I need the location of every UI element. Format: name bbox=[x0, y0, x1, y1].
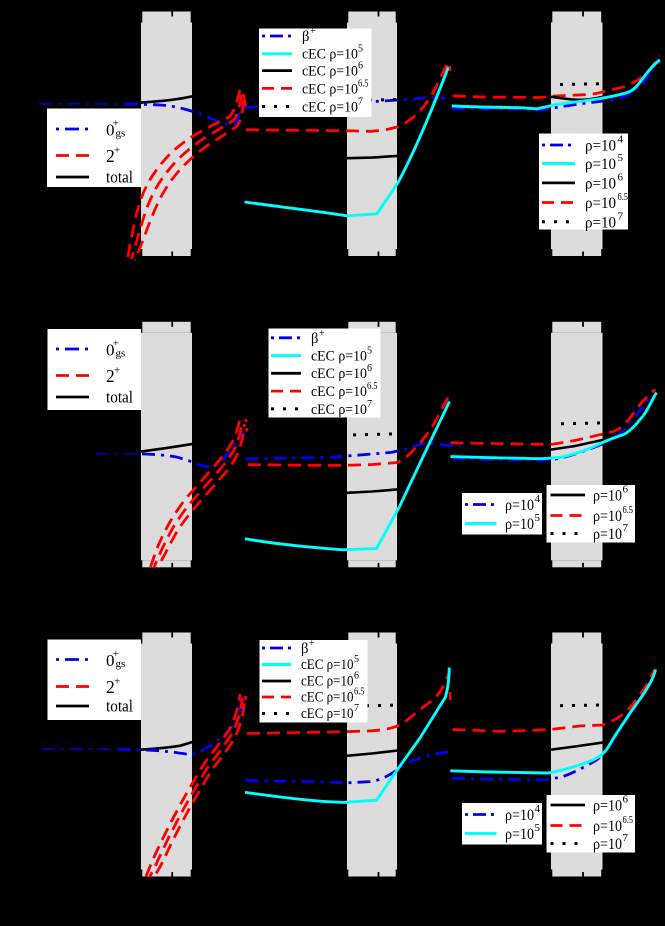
legend row3 col3b black sample bbox=[551, 804, 586, 807]
row2 col1 black total (band only) bbox=[120, 442, 205, 453]
legend row3 col3b dotted sample bbox=[551, 842, 586, 845]
svg-text:ρ=10: ρ=10 bbox=[585, 175, 616, 192]
svg-text:ρ=10: ρ=10 bbox=[505, 497, 534, 514]
svg-text:cEC ρ=10: cEC ρ=10 bbox=[301, 674, 354, 690]
svg-text:ρ=10: ρ=10 bbox=[585, 195, 616, 212]
legend row1 col2 red sample bbox=[262, 87, 292, 90]
legend row3 col1 red sample bbox=[56, 685, 89, 688]
svg-text:6: 6 bbox=[623, 794, 629, 806]
legend row1 col1 blue sample bbox=[56, 128, 89, 131]
row3 col1 blue 0+gs curve bbox=[118, 699, 242, 754]
svg-text:5: 5 bbox=[367, 345, 372, 356]
svg-text:+: + bbox=[310, 26, 316, 37]
row3 col3 blue rho 1e4 (under cyan) bbox=[452, 672, 655, 780]
legend row2 col3a blue sample bbox=[465, 503, 497, 506]
svg-text:4: 4 bbox=[535, 493, 541, 505]
legend row2 col3 box B bbox=[547, 484, 636, 544]
gray band row3 col3 bbox=[552, 633, 601, 644]
legend row1 col2 dotted sample bbox=[262, 105, 292, 108]
svg-text:ρ=10: ρ=10 bbox=[505, 807, 534, 824]
row2 col1 red 2+ bundle curve B bbox=[154, 420, 243, 568]
svg-text:4: 4 bbox=[535, 803, 541, 815]
svg-text:6: 6 bbox=[618, 172, 624, 184]
svg-text:total: total bbox=[106, 168, 133, 187]
axis ticks over bands bbox=[172, 12, 583, 877]
row3 col1 red 2+ bundle curve A bbox=[146, 694, 240, 877]
row2 col3 black cEC 1e6 (band only) bbox=[540, 423, 612, 451]
row2 col3 cyan rho 1e5 curve bbox=[451, 393, 657, 459]
svg-text:7: 7 bbox=[358, 97, 363, 108]
legend row3 col2 box bbox=[260, 638, 368, 723]
legend row1 col2 box bbox=[259, 26, 372, 117]
row2 col1 red 2+ bundle curve A bbox=[151, 417, 241, 567]
gray band row1 col3 bbox=[552, 12, 601, 23]
row3 col3 black dotted (band only) bbox=[560, 703, 608, 707]
legend row1 col3 dotted sample bbox=[542, 220, 575, 223]
row1 col1 black total curve (visible over band only) bbox=[115, 94, 210, 105]
legend row2 col1 red sample bbox=[56, 374, 89, 377]
svg-text:5: 5 bbox=[354, 654, 359, 665]
gray band row3 col1 bbox=[142, 633, 190, 644]
svg-text:cEC ρ=10: cEC ρ=10 bbox=[302, 47, 358, 63]
legend row3 col1 box bbox=[48, 640, 142, 721]
row1 col3 cyan rho 1e5 curve bbox=[452, 60, 660, 109]
legend row2 col3b dotted sample bbox=[551, 532, 586, 535]
svg-text:6.5: 6.5 bbox=[354, 687, 365, 698]
legend row3 col1 black sample bbox=[56, 705, 89, 708]
svg-text:cEC ρ=10: cEC ρ=10 bbox=[301, 690, 354, 706]
svg-text:6.5: 6.5 bbox=[358, 79, 369, 90]
svg-text:cEC ρ=10: cEC ρ=10 bbox=[302, 82, 358, 98]
svg-text:ρ=10: ρ=10 bbox=[593, 818, 622, 835]
gray band row2 col1 bbox=[142, 322, 190, 333]
legend row1 col2 black sample bbox=[262, 69, 292, 72]
svg-text:cEC ρ=10: cEC ρ=10 bbox=[301, 706, 354, 722]
svg-text:6.5: 6.5 bbox=[618, 191, 629, 203]
svg-text:6: 6 bbox=[367, 363, 372, 374]
legend row3 col3 box B bbox=[547, 794, 636, 854]
row2 col2 blue beta+ curve bbox=[246, 443, 462, 459]
legend row3 col2 red sample bbox=[262, 696, 291, 699]
svg-text:7: 7 bbox=[618, 210, 624, 222]
legend row3 col2 blue sample bbox=[262, 647, 291, 650]
row1 col1 red 2+ bundle curve B bbox=[132, 93, 242, 259]
row3 col1-2 spike red fragment bbox=[244, 696, 247, 700]
legend row2 col2 blue sample bbox=[271, 336, 301, 339]
row2 col3 blue rho 1e4 (under cyan) bbox=[452, 396, 651, 461]
svg-text:7: 7 bbox=[367, 399, 372, 410]
legend row2 col2 dotted sample bbox=[271, 407, 301, 410]
svg-text:ρ=10: ρ=10 bbox=[593, 798, 622, 815]
row2 col3 black dotted (band only) bbox=[561, 423, 610, 424]
row3 col2 red cEC 1e6.5 curve bbox=[247, 673, 449, 734]
legend row1 col1 box bbox=[47, 109, 141, 188]
svg-text:ρ=10: ρ=10 bbox=[593, 526, 622, 543]
svg-text:gs: gs bbox=[116, 348, 126, 360]
legend row1 col3 cyan sample bbox=[542, 162, 575, 165]
row1 col2 red cEC 1e6.5 curve bbox=[246, 63, 448, 132]
gray band row1 col2 bbox=[348, 12, 395, 23]
legend row3 col2 black sample bbox=[262, 680, 291, 683]
row1 col1 blue 0+gs curve bbox=[125, 99, 243, 125]
row3 col3 cyan rho 1e5 curve bbox=[450, 670, 655, 774]
legend row3 col3 box A bbox=[462, 803, 542, 845]
legend row2 col1 black sample bbox=[56, 396, 89, 399]
row1 col3 spike red fragments bbox=[449, 66, 452, 71]
legend row1 col2 cyan sample bbox=[262, 52, 292, 55]
svg-text:total: total bbox=[106, 697, 133, 716]
svg-text:β: β bbox=[311, 331, 318, 347]
gray band row3 col2 bbox=[348, 633, 395, 644]
row3 col2 blue beta+ curve bbox=[246, 752, 449, 783]
svg-text:7: 7 bbox=[623, 522, 629, 534]
legend row2 col2 black sample bbox=[271, 372, 301, 375]
row2 col3 red cEC 1e6.5 curve bbox=[451, 390, 656, 445]
row3 col1 blue faint left bbox=[42, 748, 118, 750]
gray band row2 col2 bbox=[348, 322, 395, 333]
svg-text:ρ=10: ρ=10 bbox=[505, 826, 534, 843]
row1 col1-2 spike red fragment bbox=[244, 94, 247, 107]
row1 col1 red 2+ bundle curve A bbox=[128, 89, 240, 257]
legend row2 col1 blue sample bbox=[56, 348, 89, 351]
svg-text:5: 5 bbox=[535, 512, 541, 524]
svg-text:7: 7 bbox=[623, 832, 629, 844]
svg-text:5: 5 bbox=[535, 822, 541, 834]
svg-text:+: + bbox=[114, 365, 120, 377]
row1 col3 black dotted (band only) bbox=[560, 82, 608, 86]
row2 col2 red cEC 1e6.5 curve bbox=[248, 395, 450, 466]
svg-text:ρ=10: ρ=10 bbox=[585, 214, 616, 231]
svg-text:+: + bbox=[114, 145, 120, 157]
row1 col1 blue 0+gs faint left part bbox=[39, 103, 125, 106]
svg-text:ρ=10: ρ=10 bbox=[593, 508, 622, 525]
legend row1 col1 red sample bbox=[56, 154, 89, 157]
svg-text:gs: gs bbox=[116, 658, 126, 670]
row2 col2 black dotted (band only) bbox=[340, 434, 408, 494]
row1 col2 cyan cEC 1e5 curve bbox=[245, 67, 449, 216]
svg-text:cEC ρ=10: cEC ρ=10 bbox=[311, 348, 367, 364]
svg-text:ρ=10: ρ=10 bbox=[593, 836, 622, 853]
row2 col1 blue faint left bbox=[96, 453, 142, 455]
row3 col1 red 2+ bundle curve B bbox=[150, 698, 243, 878]
svg-text:4: 4 bbox=[618, 134, 624, 146]
svg-text:cEC ρ=10: cEC ρ=10 bbox=[302, 64, 358, 80]
legend row2 col2 box bbox=[269, 328, 381, 418]
gray band row1 col1 bbox=[141, 12, 603, 877]
svg-text:6: 6 bbox=[354, 671, 359, 682]
svg-text:β: β bbox=[302, 29, 309, 45]
svg-text:6.5: 6.5 bbox=[623, 504, 634, 516]
svg-text:5: 5 bbox=[618, 152, 624, 164]
svg-text:6.5: 6.5 bbox=[623, 814, 634, 826]
legend row2 col3b black sample bbox=[551, 494, 586, 497]
legend row1 col3 red sample bbox=[542, 201, 575, 204]
row3 col1 black total (band only) bbox=[120, 740, 205, 752]
row1 col3 red cEC 1e6.5 curve bbox=[453, 56, 659, 98]
legend row3 col2 cyan sample bbox=[262, 663, 291, 666]
row3 col3 red cEC 1e6.5 curve bbox=[453, 670, 656, 732]
legend row1 col1 black sample bbox=[56, 176, 89, 179]
legend row2 col3b red sample bbox=[551, 514, 586, 517]
svg-text:+: + bbox=[319, 328, 325, 339]
row1 col1 red 2+ bundle curve C bbox=[135, 97, 244, 261]
row2 col2 cyan cEC 1e5 curve bbox=[245, 402, 450, 550]
row3 col2 black dotted (band only) bbox=[340, 705, 408, 756]
legend row3 col3b red sample bbox=[551, 824, 586, 827]
row2 col1-2 spike red fragments bbox=[245, 419, 248, 422]
svg-text:5: 5 bbox=[358, 44, 363, 55]
row3 col2 black cEC 1e6 (band only) bbox=[340, 749, 408, 756]
svg-text:cEC ρ=10: cEC ρ=10 bbox=[311, 402, 367, 418]
svg-text:cEC ρ=10: cEC ρ=10 bbox=[311, 384, 367, 400]
row1 col2 black dotted cEC 1e7 (band only) bbox=[340, 99, 410, 158]
legend row2 col3 box A bbox=[462, 493, 542, 535]
svg-text:total: total bbox=[106, 388, 133, 407]
svg-text:7: 7 bbox=[354, 703, 359, 714]
svg-text:ρ=10: ρ=10 bbox=[585, 138, 616, 155]
row1 col3 black cEC 1e6 (band only) bbox=[545, 84, 613, 100]
svg-text:6: 6 bbox=[358, 61, 363, 72]
svg-text:+: + bbox=[309, 638, 315, 649]
legend row3 col3a blue sample bbox=[465, 813, 497, 816]
svg-text:cEC ρ=10: cEC ρ=10 bbox=[301, 657, 354, 673]
legend row2 col2 red sample bbox=[271, 390, 301, 393]
legend row3 col1 blue sample bbox=[56, 658, 89, 661]
svg-text:cEC ρ=10: cEC ρ=10 bbox=[311, 366, 367, 382]
legend row1 col3 box bbox=[539, 134, 628, 232]
legend row1 col3 blue sample bbox=[542, 144, 575, 147]
svg-text:+: + bbox=[114, 676, 120, 688]
svg-text:ρ=10: ρ=10 bbox=[593, 488, 622, 505]
row1 col3 blue rho 1e4 curve (under cyan) bbox=[452, 59, 659, 111]
svg-text:ρ=10: ρ=10 bbox=[585, 156, 616, 173]
gray band row2 col3 bbox=[552, 322, 601, 333]
svg-text:β: β bbox=[301, 641, 308, 657]
svg-text:6: 6 bbox=[623, 484, 629, 496]
svg-text:6.5: 6.5 bbox=[367, 381, 378, 392]
legend row1 col3 black sample bbox=[542, 181, 575, 184]
svg-text:cEC ρ=10: cEC ρ=10 bbox=[302, 100, 358, 116]
row3 col2 cyan cEC 1e5 curve bbox=[245, 668, 449, 803]
svg-text:ρ=10: ρ=10 bbox=[505, 516, 534, 533]
svg-text:gs: gs bbox=[116, 128, 126, 140]
row3 col3 black cEC 1e6 (band only) bbox=[540, 705, 612, 751]
legend row2 col1 box bbox=[48, 329, 142, 410]
row1 col2 black cEC 1e6 (band only) bbox=[340, 155, 410, 159]
row2 col2 black cEC 1e6 (band only) bbox=[340, 489, 408, 494]
row2 col1 blue 0+gs curve bbox=[142, 432, 244, 468]
row2 col1 red 2+ bundle curve C bbox=[158, 424, 245, 568]
legend row3 col2 dotted sample bbox=[262, 712, 291, 715]
legend row3 col3a cyan sample bbox=[465, 832, 497, 835]
row3 col3 spike red fragments bbox=[448, 692, 451, 700]
legend row2 col2 cyan sample bbox=[271, 354, 301, 357]
row3 col1 red 2+ bundle curve C bbox=[153, 702, 245, 879]
legend row1 col2 blue sample bbox=[262, 35, 292, 38]
legend row2 col3a cyan sample bbox=[465, 522, 497, 525]
row1 col2 blue beta+ curve bbox=[245, 97, 445, 107]
